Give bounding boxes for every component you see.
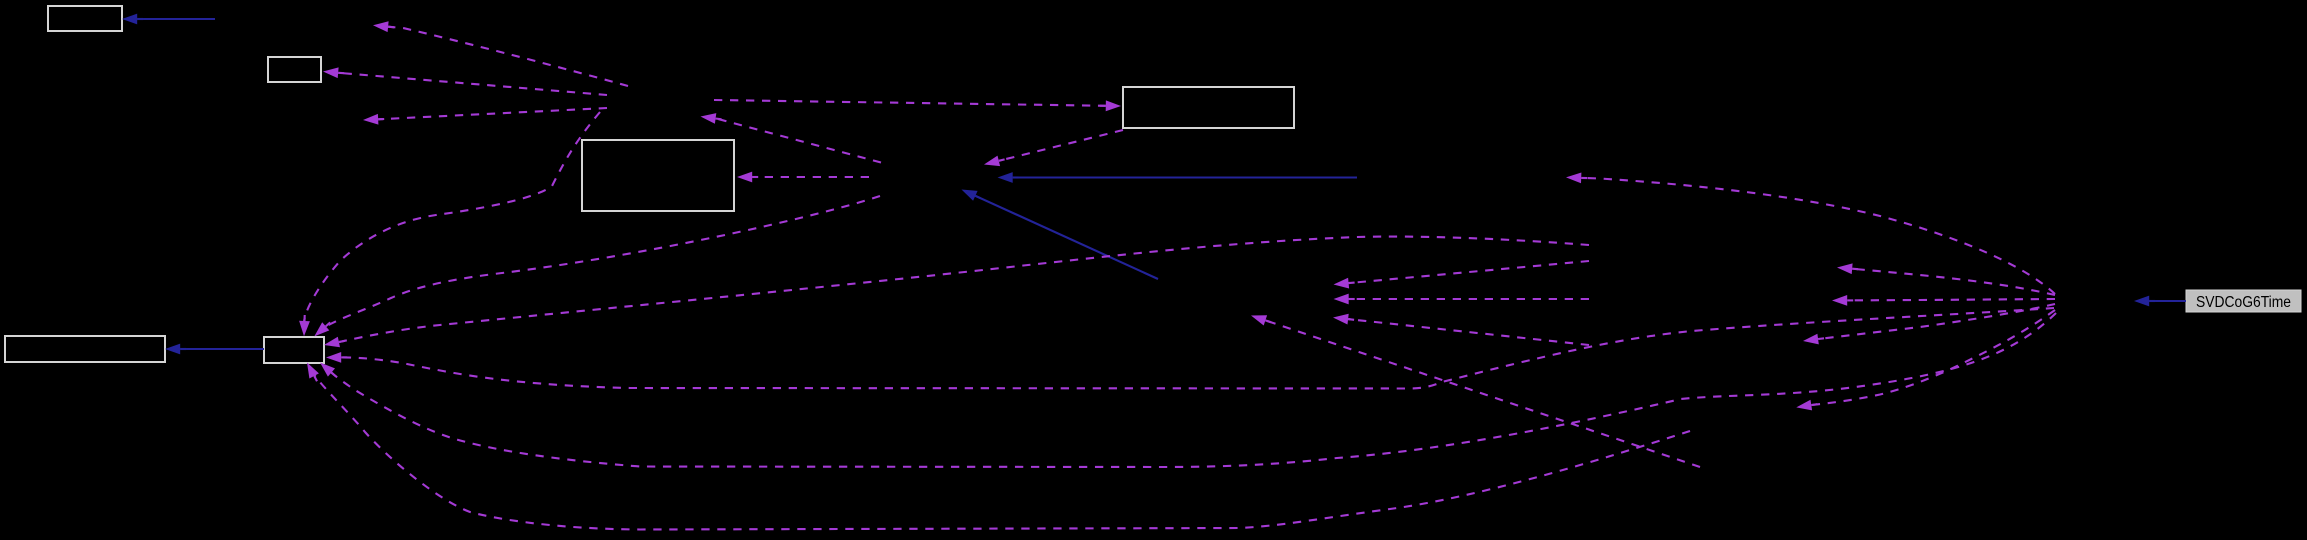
node B (small class box) <box>268 57 321 82</box>
dashed d3: hub H1 to hidden node X2 <box>363 108 607 125</box>
node F (hub class box) <box>264 337 324 363</box>
blue edge b3: long horizontal into hidden node H2 <box>998 172 1358 183</box>
dashed d8: hidden node H2 into node C <box>737 172 869 183</box>
dashed d4: hub H1 down to node F top <box>299 112 600 336</box>
dashed f5: hidden node H5 fan (down2) <box>1796 310 2055 410</box>
node C (large class box) <box>582 140 734 211</box>
node A (top-left class box) <box>48 6 122 31</box>
dashed d5: hub H1 into node D <box>714 100 1121 111</box>
node D (wide class box) <box>1123 87 1294 128</box>
dashed d2: hub H1 into node B <box>323 67 607 95</box>
blue edge b2: node F to node E <box>165 344 264 355</box>
dashed d13: long diagonal into hidden node H4 bottom <box>1251 315 1700 467</box>
dashed d11: column node to hidden node H4 (middle) <box>1334 294 1590 305</box>
dashed d6: hidden node H2 up to hub H1 <box>701 113 882 162</box>
dashed d17: hidden node H5 long curve to node F bottom <box>320 313 2056 467</box>
svg-text:SVDCoG6Time: SVDCoG6Time <box>2196 294 2291 311</box>
dashed d18: long bottom curve to node F bottom <box>307 363 1690 530</box>
dashed d10: column node to hidden node H4 (upper) <box>1334 261 1590 289</box>
blue edge b4: diagonal into hidden node H2 <box>962 190 1159 280</box>
dashed d7: node D corner into hidden node H2 top <box>984 130 1123 166</box>
dashed d14: hidden node H2 down to node F top <box>314 196 880 336</box>
dashed d9: hidden node H5 arc to hidden node H3 <box>1566 173 2055 295</box>
blue edge b5: from SVDCoG6Time to hidden node H5 <box>2134 296 2186 307</box>
dashed d16: hidden node H5 long curve to node F right lower <box>326 308 2054 389</box>
dashed f3: hidden node H5 fan (flat) <box>1832 295 2055 306</box>
dashed f2: hidden node H5 fan (top) <box>1837 263 2055 295</box>
blue edge b1: into node A <box>122 14 215 25</box>
dashed f4: hidden node H5 fan (down1) <box>1803 304 2055 344</box>
dashed d12: column node to hidden node H4 (lower) <box>1333 314 1589 345</box>
dashed d1: hub H1 to hidden node X1 (top) <box>373 21 628 86</box>
node G: SVDCoG6Time (focal node, grey filled) <box>2186 290 2301 312</box>
dashed d15: column node long curve to node F right <box>324 237 1589 348</box>
node E (wide class box left) <box>5 336 165 362</box>
